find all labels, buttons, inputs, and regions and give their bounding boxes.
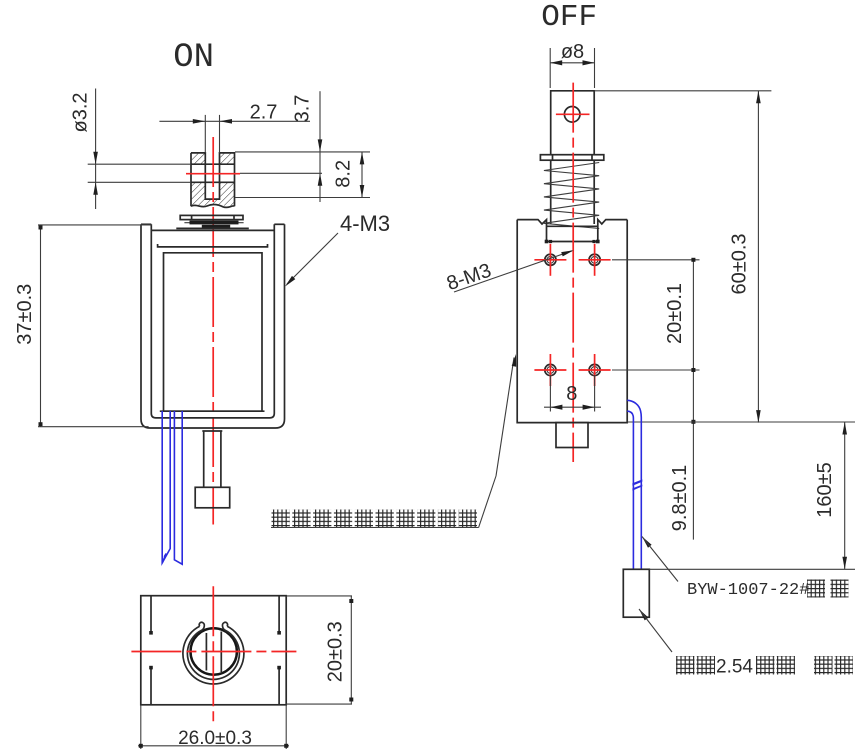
svg-text:2.54: 2.54 — [716, 657, 753, 678]
dimension 26.0±0.3 — [138, 705, 289, 749]
svg-text:2.7: 2.7 — [250, 102, 278, 124]
plunger pin and end cap (ON view) — [195, 431, 230, 508]
solenoid body (OFF view) — [517, 220, 627, 423]
dimension 20±0.3 — [286, 596, 353, 704]
lead wire (OFF view, blue) — [627, 400, 642, 569]
spring retainer washer — [540, 155, 603, 161]
dimension 2.7 (slot width) — [159, 102, 310, 153]
svg-text:8: 8 — [566, 383, 577, 405]
dimension 9.8±0.1 — [669, 420, 695, 531]
dimension 3.7 — [235, 91, 370, 202]
note: coil must not be higher than housing surface (Chinese) — [271, 354, 516, 528]
svg-text:20±0.3: 20±0.3 — [325, 621, 347, 682]
svg-text:9.8±0.1: 9.8±0.1 — [669, 465, 691, 532]
svg-text:60±0.3: 60±0.3 — [729, 233, 751, 294]
coil bobbin (ON view) — [158, 244, 268, 411]
label standard 2.54 pitch white connector — [639, 609, 853, 678]
plunger clevis (ON view, hatched section) — [191, 153, 235, 208]
ON view centerline — [186, 137, 240, 525]
bottom view centerlines — [131, 586, 296, 726]
svg-text:37±0.3: 37±0.3 — [14, 284, 36, 345]
dimension ø8 — [550, 41, 594, 88]
OFF view centerline — [572, 83, 574, 462]
4 x M3 tapped holes — [534, 244, 610, 386]
svg-text:OFF: OFF — [541, 0, 597, 35]
solenoid frame bracket (ON view) — [141, 224, 285, 428]
dimension 160±5 — [649, 422, 855, 569]
plunger circle and guide ring (bottom view) — [183, 622, 244, 684]
label 8-M3 with leader — [444, 250, 574, 295]
svg-text:BYW-1007-22#: BYW-1007-22# — [687, 581, 809, 600]
plunger cap (OFF view) — [556, 423, 588, 448]
dimension 8.2 — [235, 152, 370, 198]
label 4-M3 with leader — [285, 211, 390, 287]
dimension 60±0.3 — [594, 91, 771, 423]
svg-text:ON: ON — [173, 39, 214, 77]
svg-text:ø8: ø8 — [561, 41, 584, 63]
lead wire pair (ON view, blue) — [162, 411, 182, 564]
connector housing (white, 2.54 pitch) — [623, 569, 649, 617]
mounting washers and nut stack — [176, 215, 249, 228]
return spring (OFF view) — [544, 163, 599, 229]
dimension 37±0.3 — [14, 225, 152, 427]
OFF view title — [541, 0, 597, 35]
bottom view housing outline — [141, 596, 286, 705]
dimension ø3.2 (clevis hole) — [70, 89, 192, 210]
svg-text:3.7: 3.7 — [292, 95, 314, 123]
ON view title — [173, 39, 214, 77]
label BYW-1007-22# blue wire — [642, 537, 849, 601]
body bottom extension line — [627, 421, 855, 423]
svg-text:20±0.1: 20±0.1 — [664, 283, 686, 344]
svg-text:160±5: 160±5 — [814, 462, 836, 517]
plunger rod behind spring — [551, 160, 595, 224]
svg-text:26.0±0.3: 26.0±0.3 — [178, 728, 252, 749]
dimension 8 (hole spacing) — [544, 375, 601, 412]
svg-text:4-M3: 4-M3 — [340, 211, 390, 236]
dimension 20±0.1 — [612, 258, 700, 540]
svg-text:8.2: 8.2 — [333, 160, 355, 188]
plunger flat bar (OFF view) — [551, 91, 595, 155]
plunger hole (OFF view) — [556, 107, 590, 123]
svg-text:ø3.2: ø3.2 — [70, 92, 92, 132]
